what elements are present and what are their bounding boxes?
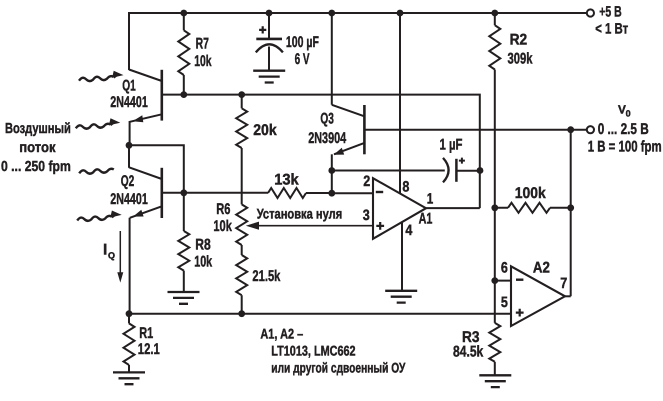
potentiometer R6 10k — [236, 204, 247, 245]
wire junction down to Q2 collector — [128, 145, 130, 168]
wire Q3 emitter down — [331, 154, 333, 193]
svg-text:4: 4 — [405, 222, 413, 239]
terminal +5V — [587, 9, 594, 16]
transistor Q1 2N4401 — [129, 70, 162, 123]
wire Q1 base net (to R7, 20k, down to A1 output) — [162, 95, 480, 209]
svg-text:I: I — [103, 242, 107, 259]
wire Q2 base to 13k — [162, 192, 268, 194]
node 100uF top — [266, 10, 273, 17]
svg-text:R7: R7 — [196, 35, 209, 52]
airflow wavy arrow 1 — [79, 76, 114, 81]
wire +5V top rail — [129, 12, 587, 14]
node 21.5k bottom rail — [238, 310, 245, 317]
svg-text:1 В = 100 fpm: 1 В = 100 fpm — [588, 139, 662, 156]
current arrow Iq — [119, 231, 121, 274]
ground below A1 — [385, 291, 417, 303]
svg-text:R2: R2 — [510, 31, 528, 48]
wire A1 pin 4 to ground — [401, 223, 403, 291]
transistor Q2 2N4401 — [129, 167, 162, 218]
svg-text:Q2: Q2 — [121, 173, 135, 190]
svg-text:309k: 309k — [508, 51, 533, 68]
op-amp A1 — [373, 178, 426, 239]
node R7 bottom / Q1 base — [180, 91, 187, 98]
resistor 20k — [241, 95, 243, 109]
node R2 top on rail — [491, 10, 498, 17]
A1 plus sign pin3 — [376, 222, 384, 230]
node 100k right / A2 out — [567, 204, 574, 211]
svg-text:21.5k: 21.5k — [252, 268, 280, 285]
resistor R3 84.5k — [489, 323, 500, 362]
wire Q2 emitter down to bottom rail — [129, 218, 131, 314]
resistor R8 10k — [183, 193, 185, 231]
wire to A1 pin 2 — [332, 192, 373, 194]
wire A1 output pin 1 — [426, 207, 480, 209]
wire left drop to Q1 collector — [128, 12, 130, 70]
svg-text:13k: 13k — [274, 171, 299, 188]
capacitor 100uF 6V — [256, 13, 283, 71]
svg-text:Q1: Q1 — [122, 77, 136, 94]
svg-text:2: 2 — [363, 173, 370, 190]
svg-text:10k: 10k — [194, 254, 212, 271]
svg-text:LT1013, LMC662: LT1013, LMC662 — [271, 342, 355, 358]
polarity plus 1uF — [459, 158, 465, 164]
node Q2 base / R8 junction — [180, 189, 187, 196]
wire Q3 base / V0 line — [364, 129, 586, 131]
terminal V0 — [587, 126, 594, 133]
svg-text:100 µF: 100 µF — [286, 34, 319, 51]
svg-text:84.5k: 84.5k — [453, 343, 484, 360]
wire A2 output — [565, 295, 571, 297]
wire to A2 pin 6 — [495, 280, 511, 282]
svg-text:R8: R8 — [195, 236, 211, 253]
resistor 100k — [508, 203, 550, 213]
airflow wavy arrow 2 — [76, 124, 111, 129]
ground below R3 — [479, 375, 511, 387]
node feedback / 1uF junction — [477, 167, 484, 174]
node V0 line / A2 out — [567, 126, 574, 133]
svg-text:2N4401: 2N4401 — [110, 191, 148, 208]
node A1 pin 2 junction — [328, 190, 335, 197]
svg-text:< 1 Вт: < 1 Вт — [595, 21, 628, 38]
svg-text:10k: 10k — [213, 218, 232, 235]
resistor 13k (series in Q2 base line) — [268, 188, 306, 198]
wire bottom rail to A2 pin 5 — [129, 313, 511, 315]
svg-text:0: 0 — [626, 109, 631, 119]
svg-text:10k: 10k — [194, 53, 212, 70]
ground below R1 — [113, 372, 145, 384]
svg-text:+5 В: +5 В — [599, 4, 622, 21]
node Q1 emitter / Q2 collector junction — [126, 142, 133, 149]
wiper arrow of R6 (zero set) — [246, 222, 259, 230]
svg-text:Q: Q — [108, 250, 115, 260]
svg-text:A2: A2 — [533, 260, 550, 277]
svg-text:или другой сдвоенный ОУ: или другой сдвоенный ОУ — [271, 360, 405, 376]
svg-text:5: 5 — [501, 294, 508, 311]
svg-text:A1: A1 — [419, 210, 433, 227]
svg-text:100k: 100k — [515, 185, 546, 202]
wire rail to A1 pin 8 — [399, 13, 401, 193]
resistor 21.5k — [236, 255, 247, 295]
svg-text:2N4401: 2N4401 — [110, 94, 148, 111]
ground below 100uF — [253, 71, 285, 83]
airflow wavy arrow 4 — [77, 216, 112, 221]
svg-text:Q3: Q3 — [320, 111, 334, 128]
svg-text:0 ... 2.5 В: 0 ... 2.5 В — [598, 121, 649, 138]
wire rail to Q3 collector — [331, 13, 333, 105]
op-amp A2 — [511, 266, 565, 326]
node Q3 emitter / 1uF line — [328, 167, 335, 174]
svg-text:поток: поток — [19, 140, 56, 156]
node R1 top / Q2 emitter — [126, 310, 133, 317]
node A1 pin8 feed on rail — [397, 10, 404, 17]
A2 minus sign pin6 — [516, 279, 523, 281]
node A1 out / 100k junction — [491, 204, 498, 211]
svg-text:7: 7 — [560, 275, 567, 292]
capacitor 1uF — [443, 158, 480, 183]
transistor Q3 2N3904 — [332, 105, 365, 155]
svg-text:A1, A2 –: A1, A2 – — [260, 325, 303, 341]
resistor R1 12.1 — [128, 314, 130, 324]
svg-text:20k: 20k — [253, 122, 277, 139]
svg-text:R1: R1 — [139, 325, 153, 342]
node 20k top — [238, 91, 245, 98]
svg-text:Воздушный: Воздушный — [5, 121, 71, 137]
svg-text:8: 8 — [402, 179, 409, 196]
svg-text:R6: R6 — [216, 201, 230, 218]
svg-text:2N3904: 2N3904 — [308, 130, 346, 147]
resistor R7 — [183, 13, 185, 30]
svg-text:12.1: 12.1 — [138, 341, 160, 358]
airflow wavy line 3 — [79, 169, 114, 174]
svg-text:6 V: 6 V — [295, 51, 310, 68]
svg-text:Установка нуля: Установка нуля — [257, 206, 343, 222]
A1 minus sign pin2 — [376, 191, 383, 193]
wire junction to Q2 base via corner — [129, 145, 184, 193]
wire Q1 emitter down — [129, 121, 131, 145]
wire 1uF line — [332, 170, 445, 172]
resistor R2 309k — [494, 13, 496, 25]
A2 plus sign pin5 — [516, 309, 524, 317]
node A2 pin6 junction — [491, 277, 498, 284]
wire R6 to 21.5k — [241, 245, 243, 255]
node Q3 collector feed on rail — [328, 10, 335, 17]
ground below R8 — [168, 292, 200, 304]
svg-text:6: 6 — [501, 260, 508, 277]
polarity plus 100uF — [259, 26, 266, 33]
svg-text:3: 3 — [363, 207, 370, 224]
svg-text:0 ... 250 fpm: 0 ... 250 fpm — [1, 159, 71, 175]
wire 20k to R6 — [241, 148, 243, 204]
svg-text:1 µF: 1 µF — [440, 136, 463, 153]
node R7 top rail junction — [180, 10, 187, 17]
svg-text:1: 1 — [427, 190, 434, 207]
wire R6 wiper to A1 pin 3 — [256, 225, 373, 227]
wire A2 output up to V0 line — [570, 130, 572, 297]
wire R2 bottom down to A2 pin 6 branch — [494, 70, 496, 323]
